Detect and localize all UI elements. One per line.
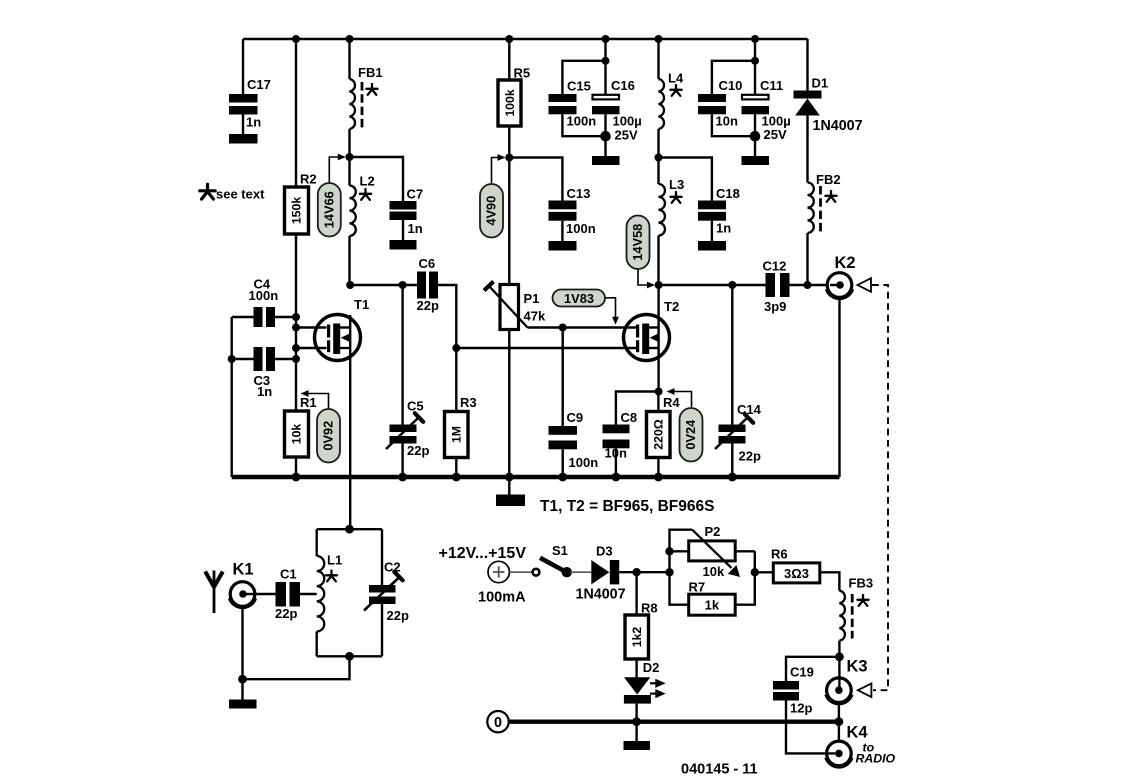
svg-text:L4: L4 bbox=[668, 71, 684, 86]
svg-text:C7: C7 bbox=[407, 187, 424, 202]
node: L4/L3/C18 junction bbox=[655, 154, 663, 162]
capacitor C3 bbox=[232, 347, 296, 399]
svg-text:D3: D3 bbox=[596, 544, 613, 559]
node: P2/R7 network input bbox=[665, 568, 673, 576]
diode D3 1N4007 bbox=[576, 544, 670, 603]
svg-text:220Ω: 220Ω bbox=[652, 419, 666, 450]
connector K4 bbox=[825, 724, 868, 768]
capacitor C17 bbox=[229, 39, 271, 134]
svg-text:FB1: FB1 bbox=[358, 65, 383, 80]
wire: P1 wiper to T2 gate2 bbox=[528, 326, 637, 328]
svg-text:K1: K1 bbox=[233, 561, 254, 579]
capacitor C8 bbox=[603, 392, 659, 478]
coax arrow at K2 bbox=[858, 278, 872, 292]
svg-text:see text: see text bbox=[216, 187, 265, 202]
svg-text:R3: R3 bbox=[460, 395, 477, 410]
node: P2/R7 network output bbox=[751, 568, 774, 576]
svg-text:FB2: FB2 bbox=[816, 172, 841, 187]
svg-text:R2: R2 bbox=[300, 172, 317, 187]
svg-text:3p9: 3p9 bbox=[764, 299, 786, 314]
svg-text:100k: 100k bbox=[503, 89, 517, 117]
node: R8 branch bbox=[632, 568, 640, 576]
ferrite bead FB1 bbox=[350, 39, 383, 157]
svg-text:D1: D1 bbox=[812, 76, 829, 91]
svg-text:C15: C15 bbox=[567, 79, 591, 94]
svg-text:C1: C1 bbox=[280, 567, 297, 582]
svg-text:25V: 25V bbox=[764, 127, 787, 142]
trimmer capacitor C2 bbox=[364, 529, 409, 656]
svg-text:K4: K4 bbox=[847, 724, 869, 742]
svg-text:T2: T2 bbox=[664, 299, 679, 314]
svg-text:1V83: 1V83 bbox=[564, 291, 594, 306]
svg-text:C19: C19 bbox=[790, 665, 814, 680]
wire: T1 source to input tank (crosses bus) bbox=[349, 360, 351, 529]
svg-text:C18: C18 bbox=[716, 186, 740, 201]
wire: K3 shell to 0 line bbox=[838, 703, 840, 742]
capacitor C13 bbox=[509, 158, 595, 242]
svg-text:14V66: 14V66 bbox=[322, 191, 337, 228]
ground (C17) bbox=[229, 134, 258, 144]
node: rail junction dots bbox=[292, 35, 759, 43]
svg-text:1M: 1M bbox=[450, 426, 464, 443]
svg-text:3Ω3: 3Ω3 bbox=[784, 566, 809, 581]
svg-text:1k2: 1k2 bbox=[630, 627, 644, 648]
potentiometer P1 bbox=[484, 158, 546, 478]
svg-text:P2: P2 bbox=[705, 524, 721, 539]
transistor T2 (BF966S) bbox=[624, 299, 680, 361]
capacitor C1 bbox=[254, 567, 317, 622]
node: C5 branch bbox=[399, 281, 407, 289]
terminal 0 bbox=[487, 711, 508, 732]
svg-text:14V58: 14V58 bbox=[630, 224, 645, 261]
node: T1 drain / C6 junction bbox=[346, 281, 354, 289]
svg-text:P1: P1 bbox=[524, 291, 540, 306]
svg-text:1k: 1k bbox=[705, 598, 720, 613]
svg-text:C8: C8 bbox=[621, 410, 638, 425]
capacitor C18 bbox=[659, 158, 740, 242]
svg-text:150k: 150k bbox=[290, 197, 304, 225]
capacitor C11 (electrolytic) bbox=[742, 39, 791, 156]
svg-text:D2: D2 bbox=[643, 660, 660, 675]
resistor R8 bbox=[625, 572, 658, 677]
svg-text:C12: C12 bbox=[763, 259, 787, 274]
svg-text:25V: 25V bbox=[615, 128, 638, 143]
svg-text:22p: 22p bbox=[387, 608, 409, 623]
svg-text:C16: C16 bbox=[611, 78, 635, 93]
svg-text:L1: L1 bbox=[327, 553, 342, 568]
svg-text:C2: C2 bbox=[384, 560, 401, 575]
connector K1 bbox=[229, 561, 257, 609]
resistor R2 bbox=[285, 39, 317, 411]
transistor T1 (BF965) bbox=[296, 297, 369, 361]
capacitor C16 (electrolytic) bbox=[592, 39, 642, 156]
node: FB3/K3/C19 junction bbox=[835, 652, 844, 661]
svg-text:22p: 22p bbox=[275, 606, 297, 621]
resistor R4 bbox=[647, 392, 681, 478]
inductor L1 (tapped) bbox=[317, 529, 342, 656]
wire: 0 volt line bbox=[509, 717, 844, 726]
connector K2 bbox=[826, 254, 856, 299]
svg-text:L3: L3 bbox=[669, 177, 684, 192]
svg-text:1N4007: 1N4007 bbox=[576, 587, 626, 603]
svg-text:R6: R6 bbox=[771, 547, 788, 562]
svg-text:1n: 1n bbox=[716, 221, 731, 236]
resistor R6 bbox=[771, 547, 839, 591]
inductor L4 bbox=[659, 39, 684, 158]
inductor L3 bbox=[659, 158, 685, 286]
svg-text:1n: 1n bbox=[257, 384, 272, 399]
note: to RADIO bbox=[856, 741, 896, 766]
capacitor C12 bbox=[763, 259, 828, 315]
ground (D2) bbox=[624, 722, 651, 750]
capacitor C7 bbox=[350, 157, 424, 240]
capacitor C6 bbox=[350, 256, 456, 348]
antenna symbol bbox=[205, 571, 223, 614]
capacitor C4 bbox=[232, 277, 296, 328]
supply terminal +12V...+15V bbox=[439, 545, 533, 606]
svg-text:100n: 100n bbox=[566, 221, 596, 236]
capacitor C9 bbox=[549, 324, 599, 478]
connector K3 bbox=[825, 658, 868, 705]
capacitor C15 bbox=[549, 61, 606, 136]
svg-text:T1, T2 = BF965, BF966S: T1, T2 = BF965, BF966S bbox=[540, 498, 714, 515]
svg-text:22p: 22p bbox=[739, 449, 761, 464]
inductor L2 bbox=[350, 157, 375, 285]
node: FB2 / output junction bbox=[804, 281, 812, 289]
wire: K1 shell down to ground bbox=[238, 607, 247, 700]
ferrite bead FB2 bbox=[808, 172, 841, 285]
svg-text:100mA: 100mA bbox=[478, 590, 526, 606]
diode D1 1N4007 bbox=[794, 39, 863, 183]
resistor R7 bbox=[670, 551, 755, 615]
wire: output line to K2 bbox=[659, 284, 766, 286]
svg-text:C10: C10 bbox=[719, 78, 743, 93]
svg-text:FB3: FB3 bbox=[849, 576, 874, 591]
resistor R5 bbox=[498, 39, 530, 158]
wire: C4/C3 left leg to ground bus bbox=[228, 317, 236, 477]
ground (C11) bbox=[742, 156, 770, 165]
wire: ground bus bbox=[232, 475, 840, 480]
svg-text:C13: C13 bbox=[567, 186, 591, 201]
svg-text:10k: 10k bbox=[703, 564, 725, 579]
svg-text:K3: K3 bbox=[847, 658, 868, 676]
svg-text:0V92: 0V92 bbox=[321, 421, 336, 451]
svg-text:RADIO: RADIO bbox=[856, 752, 896, 766]
svg-text:R5: R5 bbox=[514, 66, 531, 81]
potentiometer P2 bbox=[665, 524, 755, 579]
svg-text:C6: C6 bbox=[419, 256, 436, 271]
node: FB1/L2/C7 junction bbox=[346, 153, 354, 161]
wire: top supply rail bbox=[243, 38, 808, 41]
svg-text:L2: L2 bbox=[360, 174, 375, 189]
test point 0V92 bbox=[301, 390, 341, 462]
note: * see text bbox=[200, 184, 265, 201]
svg-text:T1: T1 bbox=[354, 297, 369, 312]
svg-text:100n: 100n bbox=[567, 114, 597, 129]
svg-text:C14: C14 bbox=[737, 402, 762, 417]
svg-text:+12V...+15V: +12V...+15V bbox=[439, 545, 527, 562]
svg-text:1N4007: 1N4007 bbox=[813, 118, 863, 134]
test point 0V24 bbox=[667, 388, 703, 461]
capacitor C19 bbox=[773, 657, 839, 754]
svg-text:1n: 1n bbox=[246, 115, 261, 130]
svg-text:10n: 10n bbox=[605, 446, 627, 461]
switch S1 bbox=[533, 543, 592, 577]
svg-text:C17: C17 bbox=[247, 77, 271, 92]
svg-text:12p: 12p bbox=[790, 701, 812, 716]
ground (C16) bbox=[592, 156, 620, 165]
ground (C13) bbox=[549, 241, 577, 251]
test point 1V83 bbox=[553, 290, 619, 325]
test point 14V58 bbox=[627, 216, 656, 289]
svg-text:1n: 1n bbox=[408, 221, 423, 236]
svg-text:100n: 100n bbox=[249, 288, 279, 303]
svg-text:100µ: 100µ bbox=[613, 114, 642, 129]
ground (K1) bbox=[229, 700, 257, 709]
ferrite bead FB3 bbox=[839, 576, 873, 691]
svg-text:R1: R1 bbox=[300, 395, 317, 410]
svg-text:0V24: 0V24 bbox=[683, 419, 698, 450]
node: gate bias dots on R2/R1 line bbox=[292, 313, 300, 363]
svg-text:R8: R8 bbox=[641, 601, 658, 616]
svg-text:100n: 100n bbox=[569, 455, 599, 470]
wire: K2 shell to ground bus bbox=[838, 298, 840, 478]
wire: dashed link K2 to K3 bbox=[872, 285, 888, 690]
svg-text:K2: K2 bbox=[835, 254, 856, 272]
capacitor C10 bbox=[698, 61, 755, 136]
coax arrow at K3 bbox=[858, 683, 872, 697]
trimmer capacitor C5 bbox=[386, 285, 429, 477]
svg-text:C9: C9 bbox=[567, 410, 584, 425]
svg-text:10n: 10n bbox=[716, 114, 738, 129]
svg-text:C11: C11 bbox=[760, 78, 783, 93]
ground (C18) bbox=[698, 241, 726, 251]
resistor R1 bbox=[285, 395, 317, 477]
ground (C7) bbox=[390, 240, 417, 250]
svg-text:S1: S1 bbox=[552, 543, 568, 558]
svg-text:22p: 22p bbox=[417, 298, 439, 313]
test point 14V66 bbox=[318, 154, 346, 237]
wire: tank top and bottom sides bbox=[317, 525, 382, 661]
svg-text:040145 - 11: 040145 - 11 bbox=[681, 762, 758, 778]
LED D2 bbox=[624, 660, 666, 722]
svg-text:0: 0 bbox=[494, 715, 502, 731]
svg-text:10k: 10k bbox=[290, 424, 304, 445]
ground (main chassis below bus) bbox=[496, 477, 525, 506]
svg-text:4V90: 4V90 bbox=[484, 196, 499, 226]
resistor R3 bbox=[445, 344, 477, 477]
wire: T2 gate1 wire bbox=[456, 347, 636, 349]
svg-text:47k: 47k bbox=[524, 309, 546, 324]
svg-text:C5: C5 bbox=[407, 399, 424, 414]
svg-text:22p: 22p bbox=[407, 443, 429, 458]
node: R5/C13/P1 junction bbox=[505, 154, 513, 162]
svg-text:R7: R7 bbox=[689, 580, 706, 595]
wire: tank bottom to K1 ground bbox=[243, 656, 350, 679]
node: ground bus junction dots bbox=[292, 473, 737, 482]
wire: T2 drain up / source down bbox=[655, 281, 663, 396]
test point 4V90 bbox=[480, 154, 506, 237]
trimmer capacitor C14 bbox=[715, 281, 762, 477]
svg-text:R4: R4 bbox=[663, 395, 680, 410]
